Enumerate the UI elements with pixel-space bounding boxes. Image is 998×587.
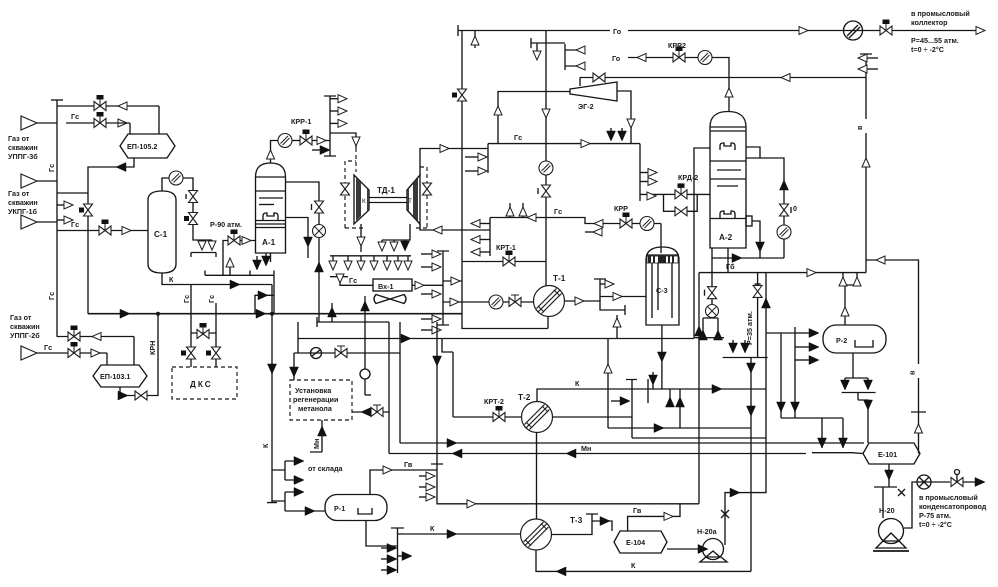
svg-text:КРР-1: КРР-1 xyxy=(291,117,311,126)
stub arrow y232 xyxy=(585,231,600,233)
svg-text:Р-1: Р-1 xyxy=(334,504,345,513)
valve КРД-2 main with actuator xyxy=(675,183,687,199)
valve bypass with actuator xyxy=(68,326,80,342)
vessel ЕП-103.1 xyxy=(93,365,147,387)
up arrow to Р-2 xyxy=(841,307,849,316)
arrow west on outlet xyxy=(433,226,442,234)
valve on discharge with wheel xyxy=(951,470,963,487)
vent arrow y69 xyxy=(866,68,878,70)
arrow down before Гс xyxy=(336,274,344,283)
arrow down on x760 xyxy=(756,242,765,252)
up arrow on x365 xyxy=(364,296,366,322)
svg-text:от склада: от склада xyxy=(308,464,344,473)
wire between valves xyxy=(192,202,194,213)
svg-text:Н-20: Н-20 xyxy=(879,506,895,515)
svg-text:0: 0 xyxy=(793,204,797,213)
wire Го2 xyxy=(628,58,729,113)
svg-text:Гс: Гс xyxy=(71,220,79,229)
wire vertical x546 xyxy=(545,43,547,286)
arrow east into Р-1 xyxy=(305,507,315,516)
svg-text:ЭГ-2: ЭГ-2 xyxy=(578,102,594,111)
instrument circle КРР xyxy=(640,217,654,231)
wire y502 east xyxy=(437,502,699,504)
wire y521 to Е-104 xyxy=(592,521,612,531)
jumper arrow y171 xyxy=(465,170,480,172)
wire y428 xyxy=(608,427,751,429)
wire turbine К outlet down xyxy=(360,224,362,252)
wire КРТ-1 valve line xyxy=(462,261,546,263)
svg-text:Гв: Гв xyxy=(633,506,642,515)
wire К vertical xyxy=(267,285,277,503)
arrow east y492 xyxy=(294,488,304,497)
wire А-2 right line y158 xyxy=(746,158,784,258)
bar x592 xyxy=(586,514,598,529)
stub arrow y284 xyxy=(600,283,607,285)
valve on right dashed xyxy=(423,183,432,195)
valve on drop xyxy=(753,285,762,297)
up arrows pair xyxy=(839,277,847,286)
wire riser to ЕП-105.2 right xyxy=(158,106,160,134)
valve on chain xyxy=(708,287,717,299)
arrow east y461 xyxy=(294,457,304,466)
spray down arrows row xyxy=(329,256,412,270)
wire y353 line xyxy=(294,352,400,354)
svg-text:КРН: КРН xyxy=(148,341,157,355)
svg-text:Т-3: Т-3 xyxy=(570,516,583,525)
wire into ДКС xyxy=(190,359,192,368)
arrow down x272 xyxy=(268,364,277,374)
valve on x462 with square xyxy=(458,89,467,101)
svg-text:КРТ-2: КРТ-2 xyxy=(484,397,504,406)
arrow east y502 xyxy=(467,500,476,508)
stub arrow into bar y330 xyxy=(421,329,434,331)
wire inlet drop to ЕП-103.1 xyxy=(106,353,108,365)
wire bar sides down xyxy=(190,253,192,258)
wire heavy header y=314 xyxy=(88,313,462,315)
arrow west on Гс2 xyxy=(527,214,536,222)
wire y338.5 xyxy=(298,322,694,353)
svg-text:скважин: скважин xyxy=(8,198,38,207)
wire drops to bar2 xyxy=(812,418,863,454)
arrow outlet east xyxy=(976,27,985,35)
arrow down x308 xyxy=(304,237,313,247)
branch bracket B xyxy=(272,492,325,511)
svg-text:Гс: Гс xyxy=(47,292,56,300)
vent bracket x565 xyxy=(564,44,566,70)
arrow down С-3 bottoms xyxy=(657,352,666,362)
vent arrow y223 xyxy=(474,223,490,225)
wire through line y281 east xyxy=(443,280,462,282)
svg-text:конденсатопровод: конденсатопровод xyxy=(919,502,987,511)
valve А-1 feed with actuator xyxy=(228,230,240,246)
wire bypass top xyxy=(57,105,159,107)
svg-text:Т: Т xyxy=(408,198,412,205)
wire ЕП-103.1 drain loop xyxy=(120,314,158,396)
spray bar below ТД-1 xyxy=(330,255,411,257)
arrow down x751 b xyxy=(747,406,756,416)
up arrows below К line xyxy=(669,389,671,403)
wire С-3 west inlet y296.5 xyxy=(600,296,646,298)
bar А-2 feed xyxy=(694,337,724,339)
arrow east К line xyxy=(712,385,722,394)
wire overhead to valve chain xyxy=(183,178,193,191)
wire А-2 left tap xyxy=(694,148,710,338)
arrow К east xyxy=(230,280,240,289)
svg-text:К: К xyxy=(631,561,636,570)
instrument circle on x784 xyxy=(777,225,791,239)
wire А-2 reboil chain x712 xyxy=(703,248,718,338)
svg-text:С-1: С-1 xyxy=(154,230,168,239)
svg-text:в промысловый: в промысловый xyxy=(911,9,970,18)
jumper arrow y157 xyxy=(465,156,480,158)
arrow down x751 a xyxy=(747,363,756,373)
valve Т-1 feed with T-handle xyxy=(509,295,521,307)
stub down arrow x537 xyxy=(536,43,538,52)
wire Мн line y453.5 xyxy=(389,453,806,455)
valve inlet with actuator xyxy=(68,342,80,358)
wire Т-1 east to block xyxy=(565,279,607,301)
arrow west into box xyxy=(361,408,371,417)
wire bypass y77.5 xyxy=(580,78,866,87)
svg-text:А-2: А-2 xyxy=(719,233,733,242)
svg-text:Газ от: Газ от xyxy=(8,134,30,143)
pump Н-20а xyxy=(697,527,727,562)
stub arrow into bar y294 xyxy=(421,293,434,295)
wire Р-1 overhead Гв xyxy=(370,470,437,495)
wire Гб line xyxy=(699,272,866,274)
wire С-1 bottoms К line xyxy=(162,273,272,285)
arrow down x437 xyxy=(433,356,442,366)
svg-text:Гс: Гс xyxy=(554,207,562,216)
wire ЕП-105.2 drain xyxy=(88,158,134,314)
arrow east on y295 xyxy=(258,291,268,300)
arrow east on Гс xyxy=(581,140,590,148)
wire Р-1 bottoms xyxy=(366,521,398,547)
wire Т-2 feed y417 xyxy=(453,416,522,418)
arrow after Вх-1 xyxy=(412,284,443,286)
stub arrow down x653 xyxy=(652,372,654,389)
heat exchanger Т-3 xyxy=(521,516,583,550)
wire y322 line into bar xyxy=(317,317,389,412)
collector bar below spray xyxy=(191,252,216,254)
svg-text:метанола: метанола xyxy=(298,404,333,413)
vessel С-3 xyxy=(646,247,679,325)
wire tie between drops xyxy=(191,332,216,334)
vessel С-1 xyxy=(148,191,176,273)
branch bracket A xyxy=(272,461,295,480)
pump Н-20 xyxy=(873,506,909,551)
svg-text:Гс: Гс xyxy=(71,112,79,121)
wire x453 drop xyxy=(452,352,454,417)
vent arrow y252 xyxy=(474,251,490,253)
valve on y353 with T xyxy=(335,346,347,358)
wire into ДКС xyxy=(215,359,217,368)
svg-text:К: К xyxy=(575,379,580,388)
svg-text:УКПГ-1б: УКПГ-1б xyxy=(8,207,37,216)
wire Гс feed to ЕП-105.2 xyxy=(66,122,94,124)
vent arrow y58 xyxy=(866,57,878,59)
wire to bus xyxy=(37,221,57,223)
compressor on Го line xyxy=(844,21,863,40)
arrow down to Е-101 xyxy=(864,400,873,410)
arrow А-1 bottoms down 2 xyxy=(265,253,267,258)
arrow up on x866 xyxy=(862,158,870,167)
svg-text:Н-20а: Н-20а xyxy=(697,527,718,536)
svg-text:Гс: Гс xyxy=(182,295,191,303)
arrow west Мн xyxy=(566,449,576,458)
valve КРР2 with actuator xyxy=(673,47,685,63)
fan of Вх-1 xyxy=(374,295,406,304)
valve ДКС right with square xyxy=(212,347,221,359)
instrument circle КРР-1 xyxy=(278,134,292,148)
arrow west before КРР xyxy=(594,220,603,228)
arrow up on x784 xyxy=(780,180,789,190)
vent arrow y241 xyxy=(474,239,490,241)
wire Т-1 feed y302 xyxy=(443,301,534,303)
instrument circle on x546 xyxy=(539,161,553,175)
vent arrow y172.5 xyxy=(640,172,648,174)
inlet triangle УППГ-2б xyxy=(21,346,37,360)
header bar x443 xyxy=(437,251,449,325)
svg-text:в: в xyxy=(855,125,864,130)
symbol x check small xyxy=(898,489,905,496)
valve drain xyxy=(135,391,147,400)
svg-text:Р-2: Р-2 xyxy=(836,336,847,345)
wire x400 drop xyxy=(399,322,401,443)
valve bypass top with actuator xyxy=(94,95,106,111)
arrow east y338.5 xyxy=(401,334,411,343)
arrow east y480 xyxy=(294,476,304,485)
wire y438 xyxy=(632,437,766,439)
arrow up on А-2 overhead xyxy=(725,88,733,97)
svg-text:Гс: Гс xyxy=(207,295,216,303)
turbine К wheel (left trapezoid) xyxy=(354,175,369,224)
valve Мн with T-handle xyxy=(371,405,383,417)
vent arrow y50 xyxy=(565,49,583,51)
svg-text:Гс: Гс xyxy=(349,276,357,285)
down arrows onto bar xyxy=(841,380,850,390)
wire feed bar x795 xyxy=(766,327,795,418)
wire x319 foot to y322 xyxy=(318,302,320,322)
vent stub with up arrow xyxy=(229,262,231,275)
arrow drain west xyxy=(118,391,128,400)
valve КРТ-2 with actuator xyxy=(493,406,505,422)
valve КРТ-1 with actuator xyxy=(503,251,515,267)
wire С-1 overhead xyxy=(162,178,169,191)
wire x437 riser to Гв header xyxy=(436,322,438,464)
wire x640 down xyxy=(639,144,641,201)
wire x766 vertical xyxy=(725,273,766,545)
svg-text:регенерации: регенерации xyxy=(293,395,338,404)
wire to bus xyxy=(37,180,57,182)
vessel А-1 xyxy=(256,163,286,253)
svg-text:Гс: Гс xyxy=(514,133,522,142)
wire riser x498 to ЭГ-2 suction xyxy=(498,92,570,144)
wire Гс feed to С-1 xyxy=(57,230,148,232)
wire x617 drop with arrow xyxy=(616,315,618,339)
wire drop into box xyxy=(293,353,295,380)
arrow east y296.5 xyxy=(613,293,622,301)
stub arrow into bar y319 xyxy=(421,318,434,320)
stub up arrow x475 xyxy=(474,31,476,49)
wire КРД-2 line y194.4 xyxy=(640,193,664,195)
symbol x check xyxy=(721,510,729,518)
arrow down Е-101 bottoms xyxy=(885,470,894,480)
wire С-3 bottoms xyxy=(661,325,663,389)
svg-text:К: К xyxy=(362,198,366,205)
wire feed riser to А-1 xyxy=(223,241,255,276)
svg-text:скважин: скважин xyxy=(8,143,38,152)
arrow down on outlet xyxy=(357,237,365,246)
bus Гс vertical xyxy=(56,100,58,337)
wire turbine Т casing riser xyxy=(420,149,488,176)
svg-text:ДКС: ДКС xyxy=(190,380,213,389)
instrument circle on Т-1 feed xyxy=(489,295,503,309)
wire Т-2 east xyxy=(553,416,633,418)
bar tick and x632 drop xyxy=(626,380,637,439)
stub arrow y487 xyxy=(419,486,428,488)
wire y443 xyxy=(400,442,864,444)
svg-text:А-1: А-1 xyxy=(262,238,276,247)
wire inlet main xyxy=(37,352,107,354)
svg-text:Е-104: Е-104 xyxy=(626,538,645,547)
valve ДКС left with square xyxy=(187,347,196,359)
svg-text:КРР: КРР xyxy=(614,204,628,213)
wire valve chain down to spray xyxy=(193,224,212,240)
svg-text:Р=45...55 атм.: Р=45...55 атм. xyxy=(911,36,959,45)
arrow west y260 xyxy=(876,256,885,264)
svg-text:t=0 ÷ -2°С: t=0 ÷ -2°С xyxy=(911,45,944,54)
valve on bypass xyxy=(593,73,605,82)
stub arrows into Р-2 xyxy=(795,332,810,334)
rotary meter on discharge xyxy=(917,475,931,489)
wire А-1 upper right tap xyxy=(286,182,320,302)
wire drop to С-3 xyxy=(660,224,662,254)
wire x608 drop with arrow xyxy=(607,339,609,429)
arrow down x781 xyxy=(777,402,786,412)
wire Е-101 bottoms xyxy=(874,464,897,518)
vessel Е-101 xyxy=(863,443,920,464)
wire Гс line xyxy=(488,143,640,145)
stub arrow y476 xyxy=(419,475,428,477)
heat exchanger Т-2 xyxy=(518,393,553,433)
vent arrow 2 xyxy=(330,110,338,112)
valve on x784 xyxy=(780,204,789,216)
valve КРР with actuator xyxy=(620,213,632,229)
wire Р-2 bottoms tree xyxy=(842,353,876,400)
arrow up on x319 xyxy=(315,262,324,272)
wire Т-3 bottom to К return xyxy=(536,550,751,571)
header bar x397.5 xyxy=(391,528,404,573)
wire К line y534 xyxy=(398,533,521,535)
control valve on Го line xyxy=(880,20,892,36)
svg-text:Т-1: Т-1 xyxy=(553,274,566,283)
wire bypass upper xyxy=(57,336,134,338)
wire x781 drop xyxy=(780,333,782,418)
stub arrow y559 xyxy=(381,558,390,560)
unit ДКС (dashed box) xyxy=(172,367,237,399)
arrow up x699 xyxy=(695,326,704,336)
wire А-2 right upper tap xyxy=(746,147,760,158)
instrument circle on chain xyxy=(706,305,719,318)
manifold bar y357.5 xyxy=(723,357,768,359)
arrow west on bypass xyxy=(781,74,790,82)
wire Гс2 xyxy=(490,218,661,224)
arrow А-1 bottoms down 1 xyxy=(256,256,258,262)
wire header to turbine inlet xyxy=(330,133,356,148)
wire Гс drop to ДКС right xyxy=(215,303,217,348)
down arrows onto bar xyxy=(732,340,734,344)
arrow up on overhead xyxy=(267,150,275,159)
wire Т-2 to Т-3 xyxy=(536,433,538,520)
wire y260 xyxy=(866,260,919,412)
wire from spray collector to Вх-1 xyxy=(330,277,373,286)
vent arrow y181.5 xyxy=(640,181,648,183)
wire А-2 bottoms x728 xyxy=(727,248,729,273)
wire drop x274 to header xyxy=(273,275,275,313)
svg-text:ЕП-105.2: ЕП-105.2 xyxy=(127,142,157,151)
arrow east К xyxy=(447,530,457,539)
collector bar below А-1 xyxy=(205,271,274,276)
inlet triangle УКПГ-1б upper xyxy=(21,174,37,188)
stub arrow into bar y254 xyxy=(421,253,434,255)
dashed line right of ТД-1 xyxy=(414,167,427,228)
arrow up x766 xyxy=(762,298,771,308)
svg-text:в: в xyxy=(908,370,917,375)
arrow east Гв xyxy=(664,512,673,520)
down arrows onto bar2 xyxy=(818,438,827,448)
svg-text:Гб: Гб xyxy=(726,262,735,271)
vessel ЕП-105.2 xyxy=(120,134,175,158)
wire x751 down from bar xyxy=(750,358,752,572)
wire А-1 bottom stub xyxy=(270,253,272,262)
svg-text:Р-75 атм.: Р-75 атм. xyxy=(919,511,951,520)
wire inlet to bus xyxy=(37,122,57,124)
arrow ЕП-105.2 drain west xyxy=(116,163,126,172)
stub arrow y548 xyxy=(381,547,390,549)
down arrow on x546 xyxy=(542,109,550,118)
svg-text:Р=35 атм.: Р=35 атм. xyxy=(745,311,754,345)
svg-text:Гв: Гв xyxy=(404,460,413,469)
tick bar x648 xyxy=(647,379,649,403)
svg-text:Т-2: Т-2 xyxy=(518,393,531,402)
instrument circle on y353 xyxy=(311,348,322,359)
wire от склада riser xyxy=(310,420,322,452)
wire Т-3 east xyxy=(552,529,593,535)
svg-text:К: К xyxy=(169,275,174,284)
arrow on Т-1 feed xyxy=(450,298,459,306)
arrow up into box xyxy=(318,426,327,436)
vent stub arrow lower xyxy=(57,219,64,221)
arrow east y443 xyxy=(447,439,457,448)
arrow east into С-1 xyxy=(122,227,131,235)
arrow west on Го2 xyxy=(637,54,646,62)
arrow east to header xyxy=(312,140,330,142)
svg-text:УППГ-3б: УППГ-3б xyxy=(8,152,38,161)
stub arrow y401 xyxy=(611,400,622,402)
bracket x490 vents xyxy=(489,218,491,257)
valve Гс feed with actuator xyxy=(94,112,106,128)
wire drop into ЕП-105.2 xyxy=(129,123,131,134)
vent header bar x330 xyxy=(324,96,336,156)
svg-text:Гс: Гс xyxy=(44,343,52,352)
valve tie with actuator xyxy=(197,323,209,339)
junction dot xyxy=(156,312,160,316)
arrow down turbine inlet xyxy=(352,137,360,146)
svg-text:Мн: Мн xyxy=(312,439,321,449)
arrow outlet east xyxy=(975,478,985,487)
arrow east into А-1 xyxy=(242,237,251,245)
